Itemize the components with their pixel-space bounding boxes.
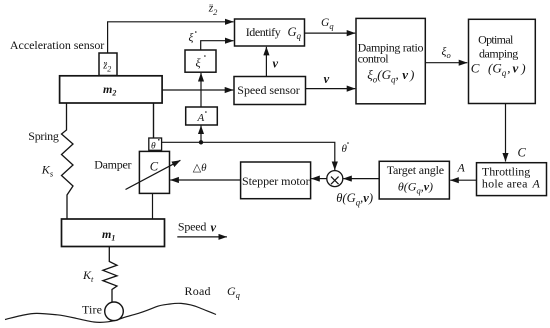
svg-text:Stepper motor: Stepper motor bbox=[242, 174, 310, 188]
wire identify to damping ratio control, label Gq bbox=[305, 32, 356, 34]
Identify box bbox=[235, 19, 305, 46]
svg-text:A: A bbox=[457, 161, 466, 175]
svg-text:Target angle: Target angle bbox=[387, 163, 444, 177]
Damping ratio control box bbox=[356, 18, 425, 103]
arrow speed direction bbox=[177, 236, 227, 238]
wire damper bottom to m1 bbox=[152, 193, 154, 219]
svg-text:Speed sensor: Speed sensor bbox=[237, 83, 299, 97]
damper C box (adjustable) bbox=[139, 151, 169, 193]
theta-dot small box bbox=[149, 138, 162, 150]
svg-text:damping: damping bbox=[479, 46, 518, 60]
wire target angle to multiplier bbox=[343, 178, 379, 180]
spring Kt bbox=[103, 247, 117, 303]
svg-text:C: C bbox=[150, 160, 159, 174]
arrow speed sensor up to identify, label v bbox=[265, 47, 267, 77]
svg-text:C: C bbox=[518, 146, 527, 160]
svg-text:hole area: hole area bbox=[482, 177, 528, 191]
svg-text:Identify: Identify bbox=[246, 25, 281, 39]
wire theta-dot feedback to multiplier bbox=[162, 142, 335, 170]
wire damping ratio to optimal damping, label xi_o bbox=[425, 62, 467, 64]
svg-text:A: A bbox=[197, 112, 205, 124]
svg-text:ξ: ξ bbox=[189, 31, 194, 44]
Optimal damping box bbox=[469, 19, 536, 103]
damper adjustable diagonal arrow bbox=[126, 160, 181, 189]
spring Ks bbox=[62, 103, 74, 219]
svg-text:C: C bbox=[471, 61, 480, 76]
wire stepper motor to damper, label delta-theta bbox=[170, 179, 240, 181]
svg-text:v: v bbox=[324, 72, 330, 86]
multiplier circle with X bbox=[327, 171, 343, 187]
svg-text:Road: Road bbox=[185, 284, 211, 298]
svg-text:A: A bbox=[532, 177, 541, 191]
Throttling hole area box bbox=[477, 163, 547, 196]
svg-text:Acceleration sensor: Acceleration sensor bbox=[10, 38, 104, 52]
wire m2 bottom to theta-dot box bbox=[153, 103, 155, 138]
wire optimal damping down to throttling, label C bbox=[505, 104, 507, 162]
svg-text:△θ: △θ bbox=[193, 162, 207, 174]
tire circle bbox=[105, 302, 124, 321]
svg-text:Spring: Spring bbox=[28, 129, 59, 143]
svg-text:Optimal: Optimal bbox=[478, 32, 514, 46]
Speed sensor box bbox=[234, 77, 306, 105]
Target angle box bbox=[379, 161, 449, 199]
svg-text:Tire: Tire bbox=[82, 302, 102, 316]
svg-text:control: control bbox=[358, 52, 390, 66]
svg-text:v: v bbox=[273, 57, 279, 71]
wire speed sensor to damping ratio control, label v bbox=[306, 88, 356, 90]
mass m2 box bbox=[60, 76, 163, 103]
wire m2 to speed sensor bbox=[162, 89, 233, 91]
wire xi-dot box to Identify bbox=[201, 41, 234, 50]
svg-text:v: v bbox=[211, 220, 217, 234]
xi-dot box bbox=[185, 50, 216, 72]
node junction dot bbox=[199, 140, 203, 144]
mass m1 box bbox=[62, 219, 165, 247]
svg-text:Speed: Speed bbox=[178, 220, 207, 234]
wire z2dd from sensor box up and right to Identify bbox=[108, 22, 234, 53]
svg-text:Damper: Damper bbox=[94, 158, 131, 172]
A-dot box bbox=[186, 107, 218, 125]
arrow A-dot box up to xi-dot box bbox=[200, 73, 202, 107]
wire throttling to target angle, label A bbox=[450, 179, 476, 181]
wire multiplier to stepper motor bbox=[311, 178, 326, 180]
svg-text:θ(Gq,v): θ(Gq,v) bbox=[398, 180, 433, 196]
arrow junction up to A-dot box bbox=[200, 126, 202, 143]
road Gq wavy ground line bbox=[5, 303, 216, 322]
Stepper motor box bbox=[241, 162, 311, 199]
acceleration sensor small box bbox=[99, 53, 117, 76]
svg-text:θ: θ bbox=[151, 141, 156, 151]
svg-text:ξ: ξ bbox=[196, 56, 202, 70]
svg-text:θ: θ bbox=[342, 143, 348, 155]
